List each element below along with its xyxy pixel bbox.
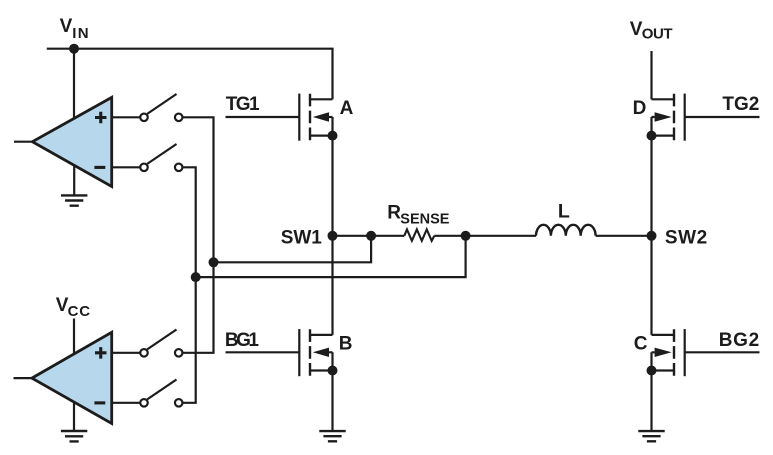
svg-text:V: V <box>60 16 73 37</box>
svg-text:SW1: SW1 <box>281 228 323 249</box>
svg-text:D: D <box>633 98 647 119</box>
svg-text:CC: CC <box>68 303 91 320</box>
svg-text:R: R <box>387 203 401 224</box>
svg-text:A: A <box>340 98 354 119</box>
svg-text:C: C <box>634 334 648 355</box>
svg-text:BG2: BG2 <box>719 330 760 351</box>
svg-text:IN: IN <box>72 25 90 42</box>
svg-text:OUT: OUT <box>642 26 673 43</box>
svg-text:BG1: BG1 <box>225 330 260 351</box>
svg-text:TG2: TG2 <box>722 94 759 115</box>
svg-text:SENSE: SENSE <box>400 211 449 227</box>
svg-text:TG1: TG1 <box>226 94 260 115</box>
svg-text:SW2: SW2 <box>665 228 708 249</box>
svg-text:B: B <box>339 334 353 355</box>
svg-text:L: L <box>558 201 570 223</box>
